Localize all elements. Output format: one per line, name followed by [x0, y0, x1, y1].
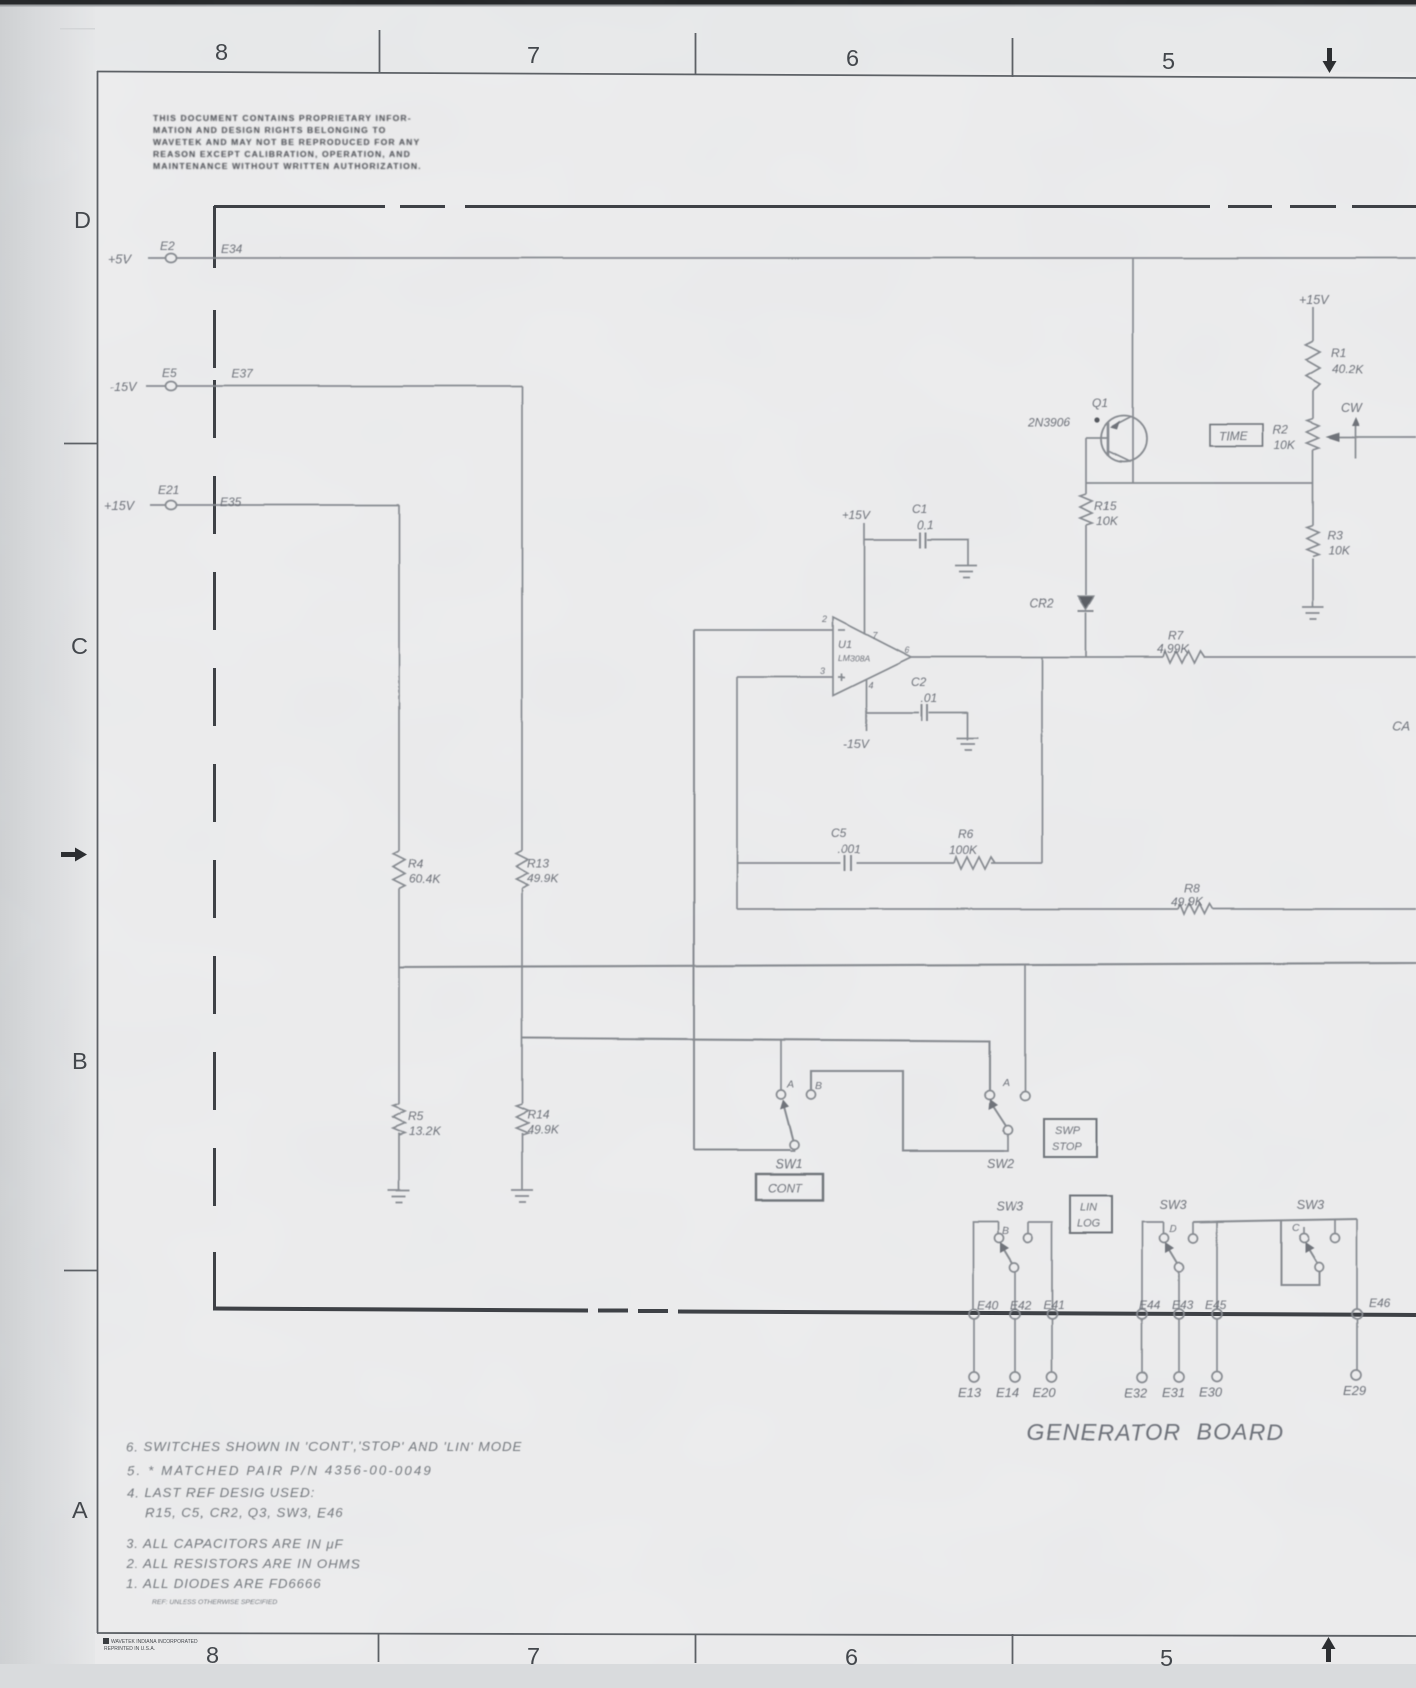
switch SW1 arm arrow	[780, 1100, 789, 1110]
terminal E13	[969, 1372, 979, 1382]
row tick B/A	[64, 1270, 97, 1272]
svg-text:REPRINTED IN U.S.A.: REPRINTED IN U.S.A.	[104, 1646, 155, 1652]
wire SW1 pole stub	[790, 1149, 794, 1151]
resistor R15	[1080, 494, 1092, 525]
wire op-amp output	[911, 656, 1416, 658]
svg-text:10K: 10K	[1274, 438, 1296, 452]
svg-text:C5: C5	[831, 826, 847, 840]
svg-text:5: 5	[1162, 48, 1175, 74]
connector E5	[166, 382, 177, 391]
svg-text:SW3: SW3	[996, 1200, 1023, 1214]
wire SW2 right contact lead	[1024, 964, 1026, 1092]
terminal E14	[1010, 1372, 1020, 1382]
svg-text:C: C	[1292, 1222, 1300, 1234]
svg-text:7: 7	[527, 42, 540, 68]
svg-text:E14: E14	[996, 1385, 1019, 1400]
wire E41-E20	[1051, 1319, 1053, 1372]
switch SW3C contact 1	[1300, 1234, 1309, 1243]
switch SW2 contact B	[1021, 1092, 1030, 1101]
svg-text:B: B	[815, 1080, 822, 1092]
resistor R3	[1307, 526, 1319, 557]
svg-text:R3: R3	[1327, 529, 1343, 543]
terminal E44	[1137, 1309, 1147, 1319]
wire E46-E29	[1356, 1319, 1358, 1370]
svg-text:6: 6	[845, 1644, 858, 1670]
wire R8 line	[737, 908, 1416, 910]
svg-text:10K: 10K	[1096, 514, 1118, 528]
switch SW3D contact 1	[1160, 1234, 1169, 1243]
svg-text:SW3: SW3	[1159, 1198, 1186, 1212]
svg-text:0.1: 0.1	[917, 518, 934, 532]
board outline dashed	[213, 206, 1416, 1315]
terminal E32	[1137, 1372, 1147, 1382]
resistor R4	[393, 851, 405, 889]
svg-text:E34: E34	[221, 242, 243, 256]
svg-text:E13: E13	[958, 1385, 982, 1400]
svg-text:-15V: -15V	[843, 737, 869, 751]
CW arrow head	[1352, 417, 1360, 426]
svg-text:LM308A: LM308A	[838, 653, 870, 663]
wire feedback vertical right	[1041, 657, 1043, 863]
svg-text:SW2: SW2	[987, 1157, 1014, 1171]
svg-text:WAVETEK AND MAY NOT BE REPRODU: WAVETEK AND MAY NOT BE REPRODUCED FOR AN…	[153, 137, 420, 147]
matched pair dot	[1094, 417, 1099, 422]
switch SW3C contact lead left	[1303, 1227, 1305, 1233]
op-amp U1	[833, 617, 911, 695]
resistor R13	[516, 850, 528, 888]
svg-text:5: 5	[1160, 1645, 1173, 1671]
svg-text:E2: E2	[160, 239, 175, 253]
zone tick bottom 7/6	[695, 1634, 697, 1663]
svg-text:+15V: +15V	[104, 499, 135, 513]
svg-text:E37: E37	[231, 367, 254, 381]
wire plus-node vertical	[736, 677, 738, 909]
wire SW1 pole link	[694, 1149, 790, 1151]
resistor R7	[1163, 651, 1204, 663]
svg-text:B: B	[72, 1048, 88, 1074]
svg-text:A: A	[786, 1079, 794, 1091]
label box LIN LOG	[1070, 1196, 1112, 1233]
svg-text:+15V: +15V	[842, 508, 871, 522]
svg-text:A: A	[72, 1497, 88, 1523]
svg-text:SW1: SW1	[775, 1157, 802, 1171]
svg-text:E42: E42	[1010, 1298, 1032, 1312]
svg-text:GENERATOR BOARD: GENERATOR BOARD	[1027, 1419, 1284, 1445]
wire E43-E31	[1178, 1319, 1180, 1372]
svg-text:SWP: SWP	[1055, 1125, 1081, 1137]
zone tick top 6/5	[1012, 38, 1014, 77]
svg-text:CW: CW	[1341, 401, 1363, 415]
switch SW3C contact 2	[1331, 1234, 1340, 1243]
switch SW2 pole	[1004, 1126, 1013, 1135]
wire -15V to C2	[866, 713, 968, 741]
svg-text:MATION AND DESIGN RIGHTS B: MATION AND DESIGN RIGHTS BELONGING TO	[153, 125, 386, 135]
transistor Q1 emitter arrow	[1110, 421, 1120, 430]
wire R1-R2	[1312, 391, 1314, 419]
wire SW3B pole to E42	[1014, 1271, 1016, 1309]
svg-text:R6: R6	[958, 827, 974, 841]
R2 wiper arrow	[1326, 433, 1340, 442]
ground R14	[511, 1190, 533, 1202]
label box TIME	[1210, 424, 1263, 446]
svg-text:MAINTENANCE WITHOUT WRITTEN AU: MAINTENANCE WITHOUT WRITTEN AUTHORIZATIO…	[153, 161, 422, 171]
switch SW2 arm arrow	[989, 1099, 998, 1110]
svg-text:7: 7	[527, 1643, 540, 1669]
diode CR2	[1078, 596, 1094, 609]
alignment arrow top	[1323, 48, 1337, 73]
board outline top dashed	[214, 205, 1416, 208]
svg-text:CR2: CR2	[1030, 596, 1054, 610]
svg-text:R13: R13	[527, 856, 549, 870]
svg-text:100K: 100K	[949, 843, 978, 857]
wire base node down / R15 column	[1085, 438, 1087, 657]
svg-text:LIN: LIN	[1080, 1202, 1097, 1214]
diode CR2 cathode bar	[1078, 610, 1094, 612]
switch SW3C contact lead right	[1334, 1219, 1336, 1233]
terminal E30	[1212, 1372, 1222, 1382]
transistor Q1 emitter lead	[1112, 417, 1131, 427]
switch SW2 contact A	[986, 1091, 995, 1100]
svg-text:1. ALL DIODES ARE FD6666: 1. ALL DIODES ARE FD6666	[126, 1576, 322, 1591]
svg-text:R1: R1	[1331, 346, 1346, 360]
wire -15V rail	[146, 385, 522, 387]
wire y483 link	[1086, 482, 1313, 484]
svg-text:+5V: +5V	[108, 252, 132, 266]
zone tick bottom 8/7	[378, 1633, 380, 1662]
wire bus y967	[399, 963, 1416, 967]
switch SW1 contact B	[807, 1091, 816, 1100]
svg-text:-15V: -15V	[110, 380, 138, 394]
switch SW2 arm	[993, 1106, 1006, 1126]
svg-text:10K: 10K	[1328, 544, 1350, 558]
svg-text:A: A	[1002, 1077, 1010, 1089]
svg-text:E44: E44	[1139, 1298, 1161, 1312]
copyright tiny bottom left	[103, 1638, 198, 1652]
potentiometer R2	[1307, 419, 1319, 450]
svg-text:4. LAST REF DESIG USED:: 4. LAST REF DESIG USED:	[127, 1485, 315, 1500]
svg-text:13.2K: 13.2K	[409, 1124, 441, 1138]
wire SW3D pole to E43	[1178, 1271, 1180, 1309]
svg-text:D: D	[1169, 1223, 1177, 1235]
svg-text:C: C	[71, 633, 88, 659]
wire E45 drop	[1216, 1221, 1218, 1309]
ground R3	[1302, 607, 1324, 619]
switch SW3D arm	[1168, 1248, 1177, 1263]
label box CONT	[756, 1174, 823, 1200]
svg-text:2N3906: 2N3906	[1027, 415, 1070, 429]
label box SWP STOP	[1044, 1119, 1097, 1157]
wire SW2 pole stub	[1004, 1134, 1008, 1151]
wire E46 drop	[1356, 1219, 1358, 1309]
switch SW3D left bracket	[1142, 1222, 1163, 1309]
wire op-amp non-inverting input	[737, 676, 833, 678]
switch SW1 arm	[784, 1107, 793, 1141]
capacitor C1	[920, 532, 926, 548]
svg-text:SW3: SW3	[1297, 1198, 1324, 1212]
wire link to SW3C pole	[1281, 1221, 1319, 1285]
ground R5	[388, 1190, 410, 1202]
svg-text:TIME: TIME	[1219, 429, 1249, 443]
proprietary notice block	[153, 113, 422, 171]
sheet border left	[97, 71, 99, 1633]
sheet border bottom	[97, 1633, 1416, 1636]
terminal E41	[1047, 1309, 1057, 1319]
wire +15V to C1	[865, 540, 969, 567]
switch SW3B contact 1	[995, 1234, 1004, 1243]
wire R3 to ground	[1312, 559, 1314, 607]
wire feedback C5/R6	[737, 862, 1042, 864]
svg-text:E35: E35	[220, 495, 242, 509]
svg-text:C1: C1	[912, 502, 927, 516]
wire Q1 collector column	[1132, 258, 1134, 483]
svg-text:40.2K: 40.2K	[1332, 362, 1364, 376]
svg-text:4.99K: 4.99K	[1157, 642, 1189, 656]
wire y1039 to SW2 left contact	[522, 1038, 990, 1091]
switch SW3B arm arrow	[1000, 1242, 1009, 1253]
switch SW3B contact lead left	[997, 1222, 999, 1233]
ground C1	[955, 566, 977, 578]
svg-text:REASON EXCEPT CALIBRATION,: REASON EXCEPT CALIBRATION, OPERATION, AN…	[153, 149, 411, 159]
svg-text:3. ALL CAPACITORS ARE IN μF: 3. ALL CAPACITORS ARE IN μF	[126, 1536, 344, 1551]
wire +15V rail	[150, 504, 399, 506]
svg-text:4: 4	[868, 680, 873, 690]
svg-text:Q1: Q1	[1092, 396, 1108, 410]
svg-text:49.9K: 49.9K	[527, 1123, 559, 1137]
svg-text:E5: E5	[162, 366, 177, 380]
svg-text:5. * MATCHED PAIR P/N 4356-0: 5. * MATCHED PAIR P/N 4356-00-0049	[127, 1463, 433, 1478]
wire R2-R3	[1312, 450, 1314, 526]
switch SW1 contact A	[777, 1091, 786, 1100]
terminal E43	[1174, 1309, 1184, 1319]
wire +15V to R1	[1312, 307, 1314, 341]
svg-text:R8: R8	[1184, 882, 1200, 896]
svg-text:60.4K: 60.4K	[409, 872, 441, 886]
switch SW3B left bracket	[973, 1222, 998, 1309]
svg-text:C2: C2	[911, 675, 927, 689]
wire E42-E14	[1014, 1319, 1016, 1372]
svg-text:STOP: STOP	[1052, 1141, 1082, 1153]
svg-text:.01: .01	[921, 691, 938, 705]
svg-text:6. SWITCHES SHOWN IN 'CONT','S: 6. SWITCHES SHOWN IN 'CONT','STOP' AND '…	[126, 1439, 522, 1454]
capacitor C5	[845, 855, 852, 871]
wire R13 column	[521, 386, 523, 1190]
wire Q1 base	[1086, 437, 1108, 439]
svg-text:E20: E20	[1033, 1385, 1057, 1400]
wire left loop vertical	[693, 630, 695, 1150]
svg-text:LOG: LOG	[1077, 1218, 1101, 1230]
terminal E46	[1352, 1309, 1362, 1319]
switch SW1 pole	[790, 1141, 799, 1150]
svg-text:R4: R4	[408, 857, 424, 871]
switch SW3C arm arrow	[1305, 1242, 1314, 1253]
svg-text:WAVETEK INDIANA INCORPORATED: WAVETEK INDIANA INCORPORATED	[111, 1639, 198, 1645]
transistor Q1 base bar	[1107, 423, 1110, 456]
switch SW3B right bracket	[1028, 1222, 1052, 1309]
switch SW1 left contact lead	[780, 1040, 782, 1091]
terminal E20	[1047, 1372, 1057, 1382]
switch SW3D contact lead left	[1162, 1222, 1164, 1233]
transistor Q1 collector lead	[1108, 451, 1131, 462]
svg-text:+15V: +15V	[1299, 293, 1330, 307]
svg-text:R15, C5, CR2, Q3, SW3, E46: R15, C5, CR2, Q3, SW3, E46	[145, 1505, 344, 1520]
svg-text:R14: R14	[527, 1108, 549, 1122]
svg-text:R2: R2	[1273, 423, 1289, 437]
connector E2	[166, 254, 177, 263]
svg-text:E46: E46	[1369, 1296, 1391, 1310]
switch SW3D pole	[1175, 1263, 1184, 1272]
svg-text:E29: E29	[1343, 1383, 1366, 1398]
alignment arrow left	[61, 848, 87, 862]
svg-text:6: 6	[904, 645, 909, 655]
wire SW1 B loop	[811, 1071, 1004, 1151]
svg-text:2: 2	[821, 614, 827, 624]
switch SW3D node bar	[1193, 1219, 1357, 1222]
zone tick bottom 6/5	[1012, 1634, 1014, 1664]
switch SW3D contact lead right	[1192, 1222, 1194, 1233]
svg-text:6: 6	[846, 45, 859, 71]
svg-text:R5: R5	[408, 1109, 424, 1123]
zone tick top 7/6	[695, 33, 697, 75]
resistor R8	[1178, 904, 1212, 914]
wire R2 wiper	[1340, 436, 1416, 438]
svg-text:49.9K: 49.9K	[1171, 895, 1203, 909]
svg-text:U1: U1	[838, 639, 852, 651]
board outline left dashed	[213, 206, 216, 1309]
svg-text:REF: UNLESS OTHERWISE SPECIFIE: REF: UNLESS OTHERWISE SPECIFIED	[152, 1599, 277, 1606]
switch SW3D arm arrow	[1165, 1242, 1174, 1253]
wire R4 column	[398, 505, 400, 1190]
transistor Q1	[1101, 416, 1147, 462]
capacitor C2	[922, 704, 928, 721]
node +5V rail wire	[148, 257, 1416, 259]
svg-text:E41: E41	[1043, 1298, 1064, 1312]
switch SW3C pole	[1315, 1263, 1324, 1272]
svg-text:E45: E45	[1205, 1298, 1227, 1312]
svg-text:E32: E32	[1124, 1385, 1148, 1400]
sheet border top	[97, 72, 1416, 79]
switch SW3B arm	[1003, 1248, 1012, 1263]
switch SW3B contact 2	[1024, 1234, 1033, 1243]
terminal E40	[969, 1309, 979, 1319]
svg-text:CA: CA	[1392, 719, 1410, 734]
row tick D/C	[64, 443, 97, 445]
svg-text:3: 3	[820, 666, 825, 676]
resistor R1	[1306, 341, 1320, 391]
switch SW3B pole	[1010, 1263, 1019, 1272]
wire op-amp +15V pin7	[864, 523, 866, 634]
connector E21	[166, 501, 177, 510]
svg-text:49.9K: 49.9K	[527, 871, 559, 885]
svg-text:CONT: CONT	[768, 1181, 804, 1195]
op-amp plus mark	[838, 674, 845, 681]
svg-text:R7: R7	[1168, 629, 1185, 643]
svg-text:D: D	[74, 207, 91, 233]
switch SW3B contact lead right	[1027, 1222, 1029, 1233]
svg-text:8: 8	[215, 39, 228, 65]
zone tick top 8/7	[379, 30, 381, 72]
terminal E42	[1010, 1309, 1020, 1319]
svg-text:E31: E31	[1162, 1385, 1185, 1400]
svg-text:.001: .001	[838, 842, 861, 856]
svg-text:R15: R15	[1094, 499, 1116, 513]
alignment arrow bottom	[1322, 1637, 1336, 1662]
op-amp minus mark	[838, 629, 845, 631]
svg-text:B: B	[1002, 1225, 1009, 1237]
svg-text:8: 8	[206, 1642, 219, 1668]
svg-text:E40: E40	[977, 1298, 999, 1312]
terminal E31	[1174, 1372, 1184, 1382]
switch SW3C arm	[1308, 1248, 1317, 1263]
wire E40-E13	[973, 1319, 975, 1372]
svg-text:2. ALL RESISTORS ARE IN OHMS: 2. ALL RESISTORS ARE IN OHMS	[125, 1556, 360, 1571]
resistor R14	[516, 1104, 528, 1135]
ground C2	[957, 738, 979, 750]
svg-text:THIS DOCUMENT CONTAINS PROPRIE: THIS DOCUMENT CONTAINS PROPRIETARY INFOR…	[153, 113, 412, 123]
svg-text:E30: E30	[1199, 1385, 1223, 1400]
board outline bottom dashed	[213, 1309, 1416, 1316]
terminal E29	[1351, 1370, 1361, 1380]
svg-text:E21: E21	[158, 483, 179, 497]
switch SW3D contact 2	[1189, 1234, 1198, 1243]
CW tick line	[1355, 424, 1357, 458]
svg-text:E43: E43	[1172, 1298, 1194, 1312]
resistor R5	[393, 1104, 405, 1135]
wire op-amp -15V pin4	[865, 679, 867, 731]
wire E45-E30	[1216, 1319, 1218, 1372]
wire op-amp inverting input	[694, 629, 833, 631]
terminal E45	[1212, 1309, 1222, 1319]
wire E44-E32	[1141, 1319, 1143, 1372]
resistor R6	[954, 857, 995, 869]
